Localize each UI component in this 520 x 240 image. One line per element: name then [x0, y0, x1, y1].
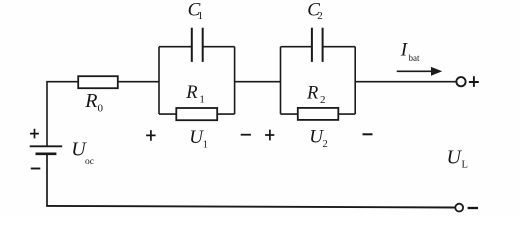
label UL: [447, 147, 468, 171]
battery Uoc: long positive plate: [30, 145, 63, 147]
svg-text:1: 1: [203, 139, 208, 150]
wire: RC box 1 bottom side, right of R1: [217, 113, 234, 115]
wire: left rail top + top-left corner to R0: [47, 82, 78, 147]
label R1: [185, 83, 205, 106]
wire: RC box 1 left side: [158, 47, 160, 114]
svg-text:1: 1: [199, 94, 205, 106]
label U2: [309, 126, 328, 150]
label U1: [189, 127, 208, 150]
wire: RC box 1 top side, right of C1: [203, 46, 235, 48]
terminal node + (top right, open circle): [456, 77, 465, 86]
svg-text:R: R: [185, 83, 197, 103]
resistor R0: [78, 76, 118, 88]
svg-text:2: 2: [323, 139, 328, 150]
wire: RC box 2 bottom side, left of R2: [281, 113, 298, 115]
terminal node - (bottom right, open circle): [455, 204, 463, 212]
polarity + of terminal: [469, 76, 479, 87]
wire: RC box 2 top side, left of C2: [281, 46, 312, 48]
polarity + of U1: [146, 130, 156, 141]
wire: RC box 1 right side: [234, 47, 236, 114]
battery Uoc: short negative plate: [36, 152, 57, 155]
wire: R0 to RC network 1: [118, 81, 159, 83]
svg-text:2: 2: [320, 94, 326, 106]
label Ibat: [400, 40, 420, 63]
svg-text:L: L: [462, 160, 468, 171]
label R2: [306, 83, 326, 106]
wire: RC box 1 bottom side, left of R1: [159, 113, 176, 115]
svg-text:U: U: [447, 147, 463, 169]
polarity - of U2: [363, 133, 373, 135]
svg-text:R: R: [84, 90, 97, 112]
wire: RC box 2 right side: [354, 47, 356, 114]
polarity - of U1: [241, 134, 251, 136]
wire: bottom rail to negative terminal: [46, 206, 455, 208]
svg-text:R: R: [306, 83, 318, 103]
polarity - of battery Uoc: [31, 168, 41, 170]
capacitor C2 plates: [312, 28, 323, 62]
polarity + of battery Uoc: [30, 129, 39, 139]
wire: RC network 2 to positive terminal: [355, 81, 456, 83]
wire: RC box 1 top side, left of C1: [159, 46, 192, 48]
wire: RC box 2 bottom side, right of R2: [338, 113, 355, 115]
current arrow Ibat head: [431, 67, 442, 76]
svg-text:I: I: [400, 40, 409, 61]
wire: RC box 2 top side, right of C2: [323, 46, 356, 48]
wire: left rail bottom: [46, 154, 48, 206]
svg-text:0: 0: [98, 103, 104, 115]
current arrow Ibat shaft: [397, 70, 432, 72]
polarity + of U2: [265, 130, 274, 141]
resistor R2: [298, 108, 339, 120]
svg-text:oc: oc: [85, 157, 94, 167]
polarity - of terminal: [468, 207, 478, 209]
label Uoc: [71, 139, 94, 167]
resistor R1: [176, 108, 217, 120]
svg-text:2: 2: [317, 10, 323, 22]
capacitor C1 plates: [192, 28, 203, 62]
wire: RC network 1 to RC network 2: [235, 81, 281, 83]
label R0: [84, 90, 103, 114]
wire: RC box 2 left side: [280, 47, 282, 114]
svg-text:bat: bat: [409, 53, 420, 63]
svg-text:1: 1: [198, 10, 204, 22]
label C2: [307, 0, 322, 22]
label C1: [188, 0, 204, 22]
